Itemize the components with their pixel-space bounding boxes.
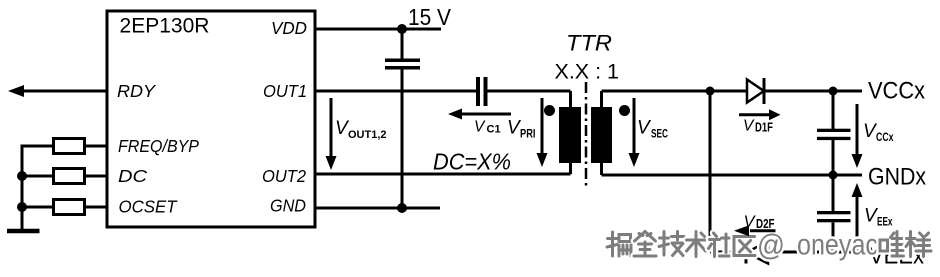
node junction dot GND cap xyxy=(397,203,407,213)
watermark CJK glyph SHU xyxy=(687,232,708,257)
watermark CJK glyph WEI xyxy=(880,232,904,257)
wire OUT2 to primary bottom xyxy=(315,173,571,176)
wire D1 to VCCx xyxy=(764,90,862,93)
svg-text:oneyac: oneyac xyxy=(797,229,878,262)
node junction dot DC bus xyxy=(17,171,27,181)
arrow VD1F pointing right xyxy=(739,113,769,116)
svg-text:DC: DC xyxy=(118,166,147,186)
wire secondary bottom stub xyxy=(600,162,603,175)
capacitor C3 VCC top plate xyxy=(817,129,851,132)
svg-text:CCx: CCx xyxy=(876,132,894,144)
node 15V junction dot xyxy=(397,24,407,34)
svg-text:15 V: 15 V xyxy=(408,4,452,30)
watermark CJK glyph QU xyxy=(734,237,755,256)
svg-text:@: @ xyxy=(757,229,785,262)
arrow VC1 pointing left xyxy=(460,113,511,116)
wire FREQ/BYP row right xyxy=(83,145,107,148)
diode D2 cathode bar xyxy=(745,242,748,264)
node primary phase dot xyxy=(544,105,555,116)
diode D1 triangle xyxy=(747,80,764,103)
node junction dot VCCx xyxy=(829,87,838,96)
wire VEE cap bottom stub xyxy=(832,222,835,252)
svg-text:GNDx: GNDx xyxy=(868,164,926,191)
node junction dot GNDx xyxy=(829,171,838,180)
svg-text:OCSET: OCSET xyxy=(119,197,178,217)
svg-text:OUT2: OUT2 xyxy=(262,166,306,186)
svg-text:RDY: RDY xyxy=(117,81,156,101)
watermark CJK glyph SHE xyxy=(709,233,732,257)
wire VDD cap bottom to GND rail xyxy=(401,70,404,209)
transformer TR core dash-dot line xyxy=(585,82,588,188)
svg-text:GND: GND xyxy=(270,196,306,216)
wire secondary top stub xyxy=(600,91,603,108)
watermark CJK glyph JU xyxy=(607,232,631,256)
wire VDD cap top stub xyxy=(401,29,404,59)
wire VEE rail right of D2 xyxy=(768,251,862,254)
wire GNDx rail xyxy=(602,174,863,177)
diode D2 triangle pointing left xyxy=(746,242,768,264)
svg-text:OUT1,2: OUT1,2 xyxy=(348,129,387,141)
svg-text:TTR: TTR xyxy=(566,31,612,56)
svg-text:EEx: EEx xyxy=(877,217,893,229)
wire DC row left xyxy=(22,175,52,178)
wire primary bottom stub xyxy=(569,162,572,174)
svg-text:C1: C1 xyxy=(487,124,501,136)
wire VCC cap bottom stub xyxy=(832,140,835,175)
IC U1 2EP130R body xyxy=(107,11,315,227)
diode D1 cathode bar xyxy=(763,78,766,104)
transformer TR secondary winding xyxy=(591,107,612,163)
wire D2 branch vertical xyxy=(709,91,712,252)
wire RDY output xyxy=(22,90,107,93)
capacitor C4 VEE bottom plate xyxy=(817,219,851,222)
transformer TR primary winding xyxy=(559,107,581,163)
svg-text:D2F: D2F xyxy=(756,216,775,231)
resistor R1 FREQ/BYP xyxy=(54,139,85,154)
svg-text:VCCx: VCCx xyxy=(868,78,925,105)
svg-text:SEC: SEC xyxy=(651,127,668,141)
arrow VD2F pointing left xyxy=(750,229,776,232)
watermark CJK glyph JI xyxy=(659,232,684,256)
svg-text:X.X : 1: X.X : 1 xyxy=(555,61,620,84)
svg-text:DC=X%: DC=X% xyxy=(433,149,511,175)
wire VCC cap top stub xyxy=(832,91,835,129)
wire resistor bus vertical xyxy=(21,146,24,230)
wire secondary top to diode D1 xyxy=(602,90,748,93)
svg-text:V: V xyxy=(474,119,486,136)
node secondary phase dot xyxy=(619,105,630,116)
capacitor C3 VCC bottom plate xyxy=(817,137,851,140)
arrow VEEx up xyxy=(856,197,859,252)
arrow VOUT1,2 down xyxy=(330,98,333,158)
wire OCSET row right xyxy=(83,206,107,209)
capacitor C1 left plate xyxy=(476,77,480,106)
watermark CJK glyph YANG xyxy=(906,232,931,257)
wire OUT1 to C1 xyxy=(315,90,476,93)
wire OCSET row left xyxy=(22,206,52,209)
wire DC row right xyxy=(83,175,107,178)
arrow VSEC down xyxy=(633,98,636,155)
wire C1 to primary top xyxy=(487,90,571,93)
svg-text:FREQ/BYP: FREQ/BYP xyxy=(118,136,199,156)
svg-text:V: V xyxy=(743,118,755,135)
arrowhead RDY pointing left xyxy=(8,85,24,97)
ground xyxy=(7,229,40,234)
svg-text:OUT1: OUT1 xyxy=(263,81,307,101)
node junction dot OCSET bus xyxy=(17,202,27,212)
arrow VCCx down xyxy=(856,104,859,156)
wire VEE cap top stub xyxy=(832,175,835,211)
svg-text:D1F: D1F xyxy=(755,121,773,135)
watermark CJK glyph JIN xyxy=(634,232,656,257)
wire VDD to 15V xyxy=(315,28,441,31)
capacitor C4 VEE top plate xyxy=(817,211,851,214)
wire primary top stub xyxy=(569,91,572,108)
svg-text:2EP130R: 2EP130R xyxy=(120,14,210,38)
wire FREQ/BYP row left xyxy=(21,145,53,148)
capacitor C2 VDD decoupling top plate xyxy=(385,59,420,63)
node junction dot VEEx xyxy=(829,248,838,257)
node junction dot D2 branch xyxy=(706,87,715,96)
capacitor C1 right plate xyxy=(484,77,488,106)
wire VEE rail left of D2 xyxy=(710,251,746,254)
resistor R2 DC xyxy=(54,169,85,184)
svg-text:PRI: PRI xyxy=(520,127,536,141)
resistor R3 OCSET xyxy=(54,200,85,215)
svg-text:VDD: VDD xyxy=(271,18,307,38)
wire GND pin rail xyxy=(315,207,440,210)
arrow VPRI down xyxy=(541,98,544,155)
capacitor C2 VDD decoupling bottom plate xyxy=(385,66,420,70)
